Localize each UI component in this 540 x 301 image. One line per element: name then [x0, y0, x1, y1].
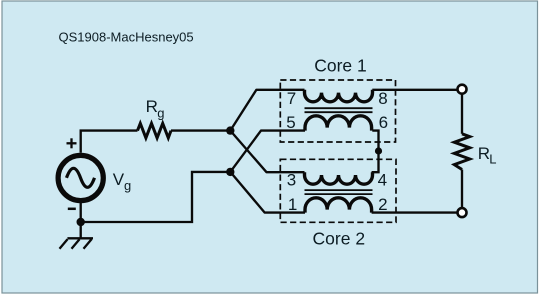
svg-text:1: 1 [288, 195, 297, 214]
minus polarity mark [68, 208, 76, 211]
core 2 bars [305, 190, 373, 194]
core 2 dashed box [280, 159, 396, 222]
svg-text:7: 7 [287, 89, 296, 108]
node D junction dot [226, 168, 234, 176]
wire: source bottom to node B [80, 201, 82, 223]
wire: Rg to node A [171, 129, 230, 131]
svg-text:6: 6 [379, 113, 388, 132]
svg-text:8: 8 [378, 89, 387, 108]
node B junction dot [77, 218, 85, 226]
wire: pin 6 to pin 4 [372, 131, 379, 173]
wire: pin 2 to output bottom [372, 211, 458, 213]
core 1 winding 5-6 [305, 116, 372, 131]
svg-text:QS1908-MacHesney05: QS1908-MacHesney05 [59, 30, 194, 45]
svg-text:g: g [124, 178, 131, 193]
svg-text:Core 1: Core 1 [314, 55, 367, 75]
wire: node D to pin 1 [230, 172, 305, 213]
core 1 winding 7-8 [305, 90, 373, 102]
wire: node D to pin 5 [230, 131, 305, 172]
wire: top terminal to RL [461, 94, 463, 134]
node A junction dot [226, 126, 234, 134]
svg-text:R: R [146, 97, 158, 116]
wire: pin 8 to output top [372, 89, 457, 91]
node E junction dot [375, 147, 382, 154]
wire: source top to Rg [81, 131, 138, 153]
terminal bottom [458, 208, 467, 217]
terminal top [458, 85, 467, 94]
core 2 winding 1-2 [305, 198, 372, 213]
resistor Rg [138, 123, 172, 137]
svg-text:5: 5 [286, 113, 295, 132]
wire: node B to ground [80, 222, 82, 238]
resistor RL [454, 134, 469, 170]
svg-text:Core 2: Core 2 [313, 228, 366, 248]
svg-text:V: V [113, 170, 125, 189]
core 1 dashed box [280, 80, 395, 142]
wire: node B to node D [81, 172, 231, 222]
wire: RL to bottom terminal [461, 170, 463, 209]
core 2 winding 3-4 [305, 172, 373, 184]
svg-text:2: 2 [378, 195, 387, 214]
core 1 bars [305, 108, 373, 112]
ground [60, 238, 94, 249]
svg-text:3: 3 [287, 170, 296, 189]
svg-text:g: g [157, 106, 164, 121]
svg-text:L: L [489, 152, 496, 167]
plus polarity mark [67, 138, 77, 148]
wire: node A to pin 7 [230, 90, 304, 131]
wire: node A to pin 3 [230, 131, 304, 173]
voltage source Vg [58, 155, 103, 200]
